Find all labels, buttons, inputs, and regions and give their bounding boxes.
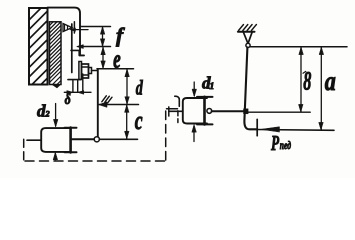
clevis joint blob	[244, 109, 249, 114]
svg-text:δ: δ	[65, 91, 71, 108]
label P ped	[270, 131, 280, 155]
svg-text:d: d	[136, 76, 144, 99]
bottom pedal line	[256, 129, 334, 132]
dimension d2 arrows	[53, 104, 58, 160]
feed pipe stub	[27, 139, 41, 141]
dim line f top	[81, 26, 111, 28]
master cylinder stub pipe	[169, 107, 183, 116]
pivot node circle	[94, 137, 99, 142]
dimension d arrows	[125, 69, 129, 104]
pedal lever	[244, 47, 256, 129]
leader arrow to wedge	[70, 28, 88, 31]
pedal pad tick	[256, 119, 258, 136]
svg-text:8: 8	[303, 66, 311, 95]
clearance delta gap pair	[64, 80, 91, 95]
dim line f/e middle with left arrow	[77, 45, 111, 49]
svg-text:Р: Р	[270, 131, 280, 155]
friction lining strip (fine hatch)	[50, 22, 62, 85]
pedal pivot support	[238, 25, 257, 48]
shoe lever top line	[97, 68, 134, 70]
fixed stop symbol	[99, 96, 112, 107]
dimension d1 arrows	[192, 82, 197, 142]
pipe hook	[175, 96, 180, 106]
piston rod to shoe lever	[72, 138, 94, 140]
top extension line	[250, 46, 347, 48]
master cylinder d1 body	[183, 98, 207, 124]
label a	[325, 67, 336, 97]
brake drum hatched block	[29, 8, 48, 85]
label delta	[65, 91, 71, 108]
b extension line	[247, 111, 311, 113]
force P arrow	[261, 127, 280, 132]
pipe line continues right	[99, 138, 137, 140]
svg-text:1: 1	[210, 82, 215, 92]
dimension c arrows	[125, 105, 129, 139]
wheel cylinder piston	[65, 128, 77, 153]
scan blob below strip	[52, 85, 62, 89]
svg-text:a: a	[325, 67, 336, 97]
svg-text:2: 2	[44, 109, 50, 119]
master cylinder piston	[197, 97, 213, 125]
dimension e arrows	[101, 47, 105, 68]
chassis boundary dash-dot	[24, 107, 178, 162]
dimension f arrows	[100, 27, 104, 47]
piston cup assembly	[79, 62, 98, 93]
dimension a arrows	[319, 47, 324, 130]
cylinder cover outline	[48, 8, 85, 56]
piston stem	[71, 24, 73, 73]
valve wedge on piston	[63, 24, 72, 32]
label c	[135, 106, 143, 135]
label b (rotated)	[303, 66, 311, 95]
seal bracket	[71, 50, 79, 55]
pushrod edge line	[73, 22, 75, 33]
wheel cylinder d2 body	[41, 128, 69, 152]
svg-text:пед: пед	[280, 139, 291, 152]
pushrod	[212, 110, 245, 112]
dimension b arrows	[299, 47, 304, 112]
pushrod ball	[207, 109, 212, 114]
svg-text:c: c	[135, 106, 143, 135]
shoe lever vertical	[97, 69, 99, 137]
label d	[136, 76, 144, 99]
dim line d bottom	[99, 104, 139, 106]
label e	[113, 44, 121, 74]
